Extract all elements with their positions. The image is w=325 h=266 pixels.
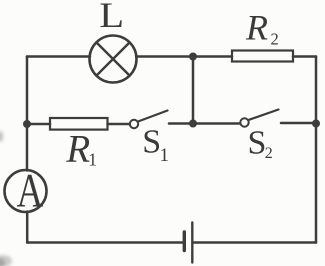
svg-text:S: S [248, 125, 267, 162]
svg-text:L: L [99, 0, 124, 35]
svg-text:A: A [17, 165, 44, 218]
svg-text:2: 2 [271, 30, 279, 49]
svg-text:1: 1 [88, 150, 97, 170]
svg-text:2: 2 [265, 145, 273, 162]
svg-text:R: R [245, 8, 268, 48]
svg-text:S: S [142, 123, 161, 160]
svg-text:R: R [65, 128, 90, 171]
svg-text:1: 1 [160, 145, 170, 166]
